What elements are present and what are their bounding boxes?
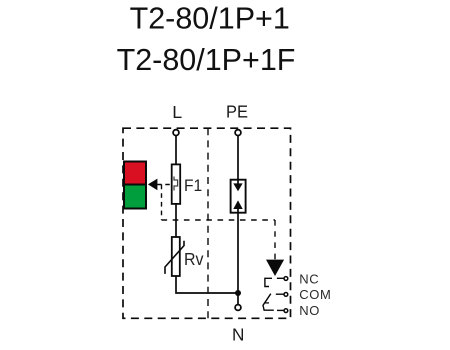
NO contact with lever	[263, 294, 288, 313]
svg-text:NO: NO	[299, 303, 320, 318]
indicator arrow	[148, 179, 158, 191]
terminal N	[235, 305, 241, 311]
svg-text:Rv: Rv	[184, 249, 204, 269]
wire L terminal to fuse F1	[175, 136, 177, 166]
svg-text:L: L	[172, 102, 182, 122]
outer dashed enclosure (SPD boundary)	[123, 128, 291, 318]
linkage drop (dashed)	[161, 185, 163, 221]
wire PE terminal to gas discharge tube	[237, 136, 239, 185]
wire Rv to bottom rail	[176, 276, 238, 293]
status indicator window (red/green)	[124, 162, 146, 209]
svg-text:NC: NC	[299, 272, 319, 287]
linkage horizontal run (dashed)	[162, 219, 276, 221]
svg-text:T2-80/1P+1F: T2-80/1P+1F	[117, 43, 296, 77]
wire GDT to node N junction	[237, 209, 239, 293]
linkage down to remote contact (dashed)	[274, 220, 276, 260]
svg-text:PE: PE	[226, 102, 248, 122]
wire junction to N terminal	[237, 293, 239, 305]
terminal L	[173, 130, 179, 136]
wire F1 to varistor Rv	[175, 204, 177, 237]
svg-text:N: N	[232, 324, 244, 344]
junction node (dot)	[235, 290, 241, 296]
module divider (dashed)	[207, 128, 209, 318]
COM contact	[276, 293, 288, 297]
fuse F1 (thermal disconnector)	[172, 164, 181, 204]
remote contact actuator triangle	[266, 260, 284, 276]
linkage arrow to F1 (dashed)	[157, 184, 172, 186]
terminal PE	[235, 130, 241, 136]
svg-text:F1: F1	[184, 177, 202, 195]
varistor Rv	[165, 237, 184, 276]
svg-text:T2-80/1P+1: T2-80/1P+1	[130, 2, 290, 36]
gas discharge tube (spark gap)	[231, 180, 246, 213]
svg-text:COM: COM	[299, 287, 331, 302]
NC fixed contact	[265, 277, 288, 287]
